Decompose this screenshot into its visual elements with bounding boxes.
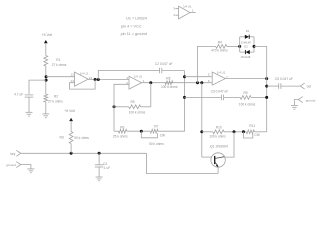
node +5V supply label (top left) <box>42 33 53 37</box>
wire R3 to key line <box>70 144 72 154</box>
wire R1 to R2 (divider column) <box>45 66 47 94</box>
pin out connector <box>300 83 304 89</box>
wire divider node to U1D pin 12 <box>46 76 74 78</box>
svg-text:U1 = LM324: U1 = LM324 <box>126 17 147 21</box>
note pin 11 = ground <box>121 32 147 36</box>
svg-text:100 k ohms: 100 k ohms <box>161 85 178 89</box>
svg-text:R10: R10 <box>216 126 222 130</box>
svg-text:ground: ground <box>6 163 16 167</box>
wire R4 to diode pair <box>227 45 240 47</box>
svg-text:50 k ohms: 50 k ohms <box>74 136 89 140</box>
wire key cap drop <box>98 153 100 165</box>
wire output column to C5 <box>267 85 279 87</box>
svg-text:Q1 2N3904: Q1 2N3904 <box>210 145 228 149</box>
label C4 value <box>103 166 110 170</box>
wire pot R7 to oscillator node column <box>158 71 185 132</box>
wire ref rail up and right to C2 <box>98 71 159 80</box>
wire left ground connector <box>21 165 31 169</box>
label R11 <box>249 124 255 128</box>
node key line pullup junction <box>70 152 73 155</box>
label R5 value 100 k ohms <box>129 111 146 115</box>
capacitor C4 key <box>95 165 104 167</box>
label C3 value <box>211 90 229 94</box>
label legend pin 1 <box>192 9 194 13</box>
transistor Q1 base bar <box>214 156 216 164</box>
wire C1 to ground <box>28 97 30 112</box>
label R2 value 27 k ohms <box>48 100 63 104</box>
wire R2 to ground <box>45 102 47 114</box>
label U1A pin 2 <box>126 81 128 85</box>
svg-text:1/4 U1: 1/4 U1 <box>183 4 192 8</box>
svg-text:ground: ground <box>306 98 316 102</box>
potentiometer R11 <box>246 130 254 134</box>
wire diode pair frame <box>240 37 254 52</box>
wire C4 to ground <box>98 167 100 177</box>
wire U1B output <box>225 78 266 80</box>
svg-text:27 k ohms: 27 k ohms <box>48 100 63 104</box>
node oscillator node to C3 rail <box>183 96 186 99</box>
resistor R5 feedback <box>129 105 141 109</box>
label R7 value 50 k ohms <box>149 142 164 146</box>
label R7 <box>154 125 158 129</box>
node base column junction <box>200 130 203 133</box>
label U1D 1/4 U1 <box>80 72 89 76</box>
svg-text:100 k ohms: 100 k ohms <box>239 103 256 107</box>
capacitor C3 0.047 uF <box>221 95 223 101</box>
svg-text:1/4 U1: 1/4 U1 <box>80 72 89 76</box>
label R11 CW <box>254 133 259 137</box>
label R8 <box>166 77 170 81</box>
potentiometer R7 <box>150 129 158 133</box>
svg-text:out: out <box>307 85 312 89</box>
wire legend input stub bottom <box>175 14 178 16</box>
svg-text:R3: R3 <box>59 136 63 140</box>
note pin 4 = VCC <box>121 24 142 28</box>
wire legend input stub top <box>175 7 178 9</box>
ground below C4 <box>96 177 103 181</box>
svg-text:C3 0.047 uF: C3 0.047 uF <box>211 90 229 94</box>
svg-text:R9: R9 <box>244 91 248 95</box>
svg-text:+5 Volt: +5 Volt <box>64 109 75 113</box>
node oscillator node to U1B noninv <box>183 75 186 78</box>
label D1 <box>246 29 250 33</box>
label C4 <box>103 162 107 166</box>
wire U1A inverting input column <box>114 84 129 131</box>
svg-text:470 k ohms: 470 k ohms <box>211 49 228 53</box>
resistor R6 <box>118 129 126 133</box>
pin ground connector left <box>16 162 20 168</box>
node U1A output junction <box>149 81 152 84</box>
wire U1B inv input up to diode branch <box>197 46 215 82</box>
pin key connector <box>16 150 20 156</box>
wire R10 to pot R11 <box>224 131 246 133</box>
node diode pair right <box>253 45 256 48</box>
power +5V arrow pullup <box>69 118 73 121</box>
ground right connector symbol <box>291 105 298 109</box>
wire U1A output line <box>142 82 213 84</box>
node inverting input column junction <box>113 105 116 108</box>
op-amp U1B oscillator <box>212 72 225 85</box>
label out <box>307 85 312 89</box>
label ground left <box>6 163 16 167</box>
op-amp U1D buffer <box>75 72 89 86</box>
label C5 value <box>275 77 293 81</box>
label U1A pin 1 <box>143 79 145 83</box>
wire Q1 collector to R10 junction <box>225 132 235 157</box>
wire divider node to C1 <box>29 80 46 94</box>
svg-text:25 k ohms: 25 k ohms <box>113 134 128 138</box>
svg-text:100 k ohms: 100 k ohms <box>129 111 146 115</box>
wire R6 to R7 pot <box>127 130 151 132</box>
wire R11 wiper loop <box>244 132 253 138</box>
wire column to R6 <box>114 130 118 132</box>
svg-text:pin 4 = VCC: pin 4 = VCC <box>121 24 142 28</box>
label R4 value 470 k ohms <box>211 49 228 53</box>
svg-text:12: 12 <box>71 73 75 77</box>
node output column C5 branch <box>265 85 268 88</box>
wire R9 to output column <box>251 96 267 98</box>
transistor Q1 collector stroke <box>215 157 225 159</box>
label R5 <box>131 100 135 104</box>
wire legend output stub <box>190 12 196 14</box>
label U1B pin 5 <box>208 73 210 77</box>
label U1A pin 3 <box>126 76 128 80</box>
label D2 value 1N4148 <box>241 55 251 59</box>
diode D2 1N4148 <box>245 50 249 54</box>
op-amp U1A amplifier <box>129 76 142 89</box>
svg-text:+5 Volt: +5 Volt <box>42 33 53 37</box>
node U1D output junction b <box>97 78 100 81</box>
wire C3 to R9 <box>224 96 241 98</box>
svg-text:100 k ohms: 100 k ohms <box>209 135 226 139</box>
svg-text:R11: R11 <box>249 124 255 128</box>
wire +5V arrow to R3 <box>70 121 72 132</box>
svg-text:D2: D2 <box>244 44 248 48</box>
svg-text:50 k ohms: 50 k ohms <box>149 142 164 146</box>
svg-text:1N4148: 1N4148 <box>241 55 251 59</box>
label legend pin 3 <box>173 7 175 11</box>
label key <box>10 152 15 156</box>
resistor R1 <box>44 56 48 67</box>
wire C2 to oscillator node <box>162 70 185 72</box>
wire C5 to out connector <box>281 85 300 87</box>
label R9 <box>244 91 248 95</box>
resistor R3 pullup <box>69 132 73 144</box>
node diode pair left <box>238 45 241 48</box>
ground below R2 <box>42 114 49 118</box>
wire Q1 base <box>202 156 211 158</box>
wire R11 to output column <box>254 131 266 133</box>
transistor Q1 circle <box>211 153 225 167</box>
wire +5V arrow to R1 <box>45 43 47 56</box>
resistor R10 <box>213 130 224 134</box>
svg-text:4.7 uF: 4.7 uF <box>14 93 23 97</box>
svg-text:R4: R4 <box>218 40 222 44</box>
svg-text:.1 uF: .1 uF <box>103 166 110 170</box>
node U1D output junction a <box>94 78 97 81</box>
label Q1 2N3904 <box>210 145 228 149</box>
label R8 value 100 k ohms <box>161 85 178 89</box>
svg-text:pin 11 = ground: pin 11 = ground <box>121 32 147 36</box>
label U1B 1/4 U1 <box>217 71 226 75</box>
ground below C1 <box>26 112 33 116</box>
label R7 CW <box>160 134 165 138</box>
label R2 <box>54 95 58 99</box>
wire R5 to inverting input column <box>114 106 129 108</box>
svg-text:C2 0.047 uF: C2 0.047 uF <box>155 62 173 66</box>
node U1B output junction <box>265 77 268 80</box>
wire R7 wiper loop <box>141 131 157 138</box>
wire key line corner to Q1 emitter <box>147 153 219 173</box>
label U1B pin 7 <box>226 75 228 79</box>
label R6 value 25 k ohms <box>113 134 128 138</box>
svg-text:1/4 U1: 1/4 U1 <box>134 75 143 79</box>
wire oscillator node to U1B pin 5 <box>185 76 213 78</box>
node R11 wiper junction <box>242 130 245 133</box>
svg-text:R2: R2 <box>54 95 58 99</box>
label pin 13 <box>71 79 75 83</box>
capacitor C1 4.7 uF <box>25 95 34 97</box>
label C1 value 4.7 uF <box>14 93 23 97</box>
op-amp legend symbol <box>179 6 190 19</box>
diode D1 1N4148 <box>245 35 249 39</box>
wire base column to R10 <box>202 131 213 133</box>
transistor Q1 emitter stroke <box>215 162 219 168</box>
wire U1A feedback horizontal <box>141 106 151 108</box>
label R10 <box>216 126 222 130</box>
node R8 to U1B junction a <box>196 81 199 84</box>
node divider junction lower <box>45 79 48 82</box>
node R7 wiper junction <box>140 130 143 133</box>
label R10 value 100 k ohms <box>209 135 226 139</box>
resistor R4 470k <box>216 45 227 49</box>
node output column C3 rail <box>265 96 268 99</box>
wire right ground connector <box>294 100 298 106</box>
wire key line <box>21 152 147 154</box>
label C2 value <box>155 62 173 66</box>
svg-text:R7: R7 <box>154 125 158 129</box>
svg-text:key: key <box>10 152 15 156</box>
label U1A 1/4 U1 <box>134 75 143 79</box>
resistor R9 <box>240 96 251 100</box>
svg-text:R6: R6 <box>120 125 124 129</box>
svg-text:27 k ohms: 27 k ohms <box>52 63 67 67</box>
label legend pin 2 <box>173 13 175 17</box>
svg-text:R5: R5 <box>131 100 135 104</box>
pin ground connector right <box>298 97 302 103</box>
label U1B pin 6 <box>208 79 210 83</box>
label pin 14 <box>89 76 93 80</box>
label R3 value 50 k ohms <box>74 136 89 140</box>
label R9 value 100 k ohms <box>239 103 256 107</box>
label R1 <box>56 58 60 62</box>
svg-text:CW: CW <box>254 133 259 137</box>
node collector junction <box>233 130 236 133</box>
label R6 <box>120 125 124 129</box>
wire U1D output to U1A input <box>88 79 129 81</box>
label D2 <box>244 44 248 48</box>
wire Q1 emitter to key line <box>217 167 219 173</box>
label ground right <box>306 98 316 102</box>
label R3 <box>59 136 63 140</box>
svg-text:1/4 U1: 1/4 U1 <box>217 71 226 75</box>
capacitor C5 0.047 uF <box>279 83 281 89</box>
label legend 1/4 U1 <box>183 4 192 8</box>
wire U1D feedback loop <box>70 80 96 90</box>
note U1 = LM324 <box>126 17 147 21</box>
node R8 to U1B junction b <box>200 81 203 84</box>
node divider junction upper <box>45 75 48 78</box>
label R1 value 27 k ohms <box>52 63 67 67</box>
wire U1B inv column down <box>201 83 203 157</box>
label R4 <box>218 40 222 44</box>
resistor R8 series <box>165 81 173 85</box>
label pin 12 <box>71 73 75 77</box>
svg-text:C5 0.047 uF: C5 0.047 uF <box>275 77 293 81</box>
resistor R2 <box>44 94 48 102</box>
wire diode pair to output column <box>254 46 267 131</box>
power +5V arrow (top left) <box>44 40 48 43</box>
wire U1A feedback vertical <box>150 83 152 107</box>
node key line cap junction <box>98 152 101 155</box>
capacitor C2 0.047 uF <box>160 68 162 74</box>
label D1 value 1N4148 <box>241 40 251 44</box>
svg-text:D1: D1 <box>246 29 250 33</box>
ground left connector symbol <box>27 169 34 173</box>
svg-text:R1: R1 <box>56 58 60 62</box>
svg-text:CW: CW <box>160 134 165 138</box>
label +5V pullup <box>64 109 75 113</box>
wire C3 rail left <box>185 96 222 98</box>
svg-text:R8: R8 <box>166 77 170 81</box>
